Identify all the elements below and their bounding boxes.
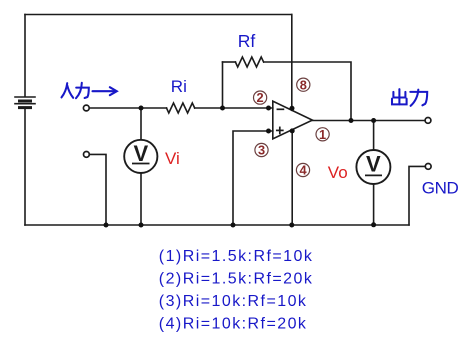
wire node to Rf left riser: [222, 62, 224, 108]
wire Vo branch upper: [373, 121, 375, 151]
svg-text:2: 2: [257, 90, 264, 105]
battery B1: [15, 97, 35, 108]
svg-text:(3)Ri=10k:Rf=10k: (3)Ri=10k:Rf=10k: [159, 293, 308, 310]
op-amp plus sign: [277, 127, 283, 133]
wire input terminal to resistor Ri: [89, 107, 167, 109]
wire pin 8 supply from top rail: [291, 15, 293, 111]
resistor Rf: [235, 57, 263, 67]
wire GND terminal lead: [409, 166, 425, 225]
wire Vi branch upper: [140, 108, 142, 140]
node junction Rf/output: [349, 118, 354, 123]
node junction Vo bottom: [371, 222, 376, 227]
pin 2 circled: [254, 90, 267, 105]
node junction Vo/output: [371, 118, 376, 123]
wire non-inverting input to ground rail: [233, 131, 273, 225]
op-amp U1: [273, 101, 313, 139]
node junction non-inverting input: [266, 129, 271, 134]
voltmeter Vi letter V: [133, 141, 381, 177]
svg-text:GND: GND: [422, 178, 458, 197]
voltmeter Vi underline: [132, 163, 150, 165]
node junction lower terminal bottom: [104, 223, 109, 228]
svg-text:4: 4: [299, 163, 307, 178]
wire Vo branch lower: [373, 184, 375, 225]
wire Rf left lead: [223, 61, 236, 63]
voltmeter Vo: [356, 150, 390, 184]
pin 1 circled: [316, 127, 329, 142]
node junction plus input bottom: [231, 223, 236, 228]
node junction Ri/Rf: [220, 106, 225, 111]
wire pin 4 to ground rail: [291, 130, 293, 225]
wire op-amp output to output terminal: [312, 120, 425, 122]
node output terminal: [425, 118, 431, 124]
wire top rail: [25, 14, 292, 16]
node junction inverting input: [266, 106, 271, 111]
wire lower input terminal lead: [89, 154, 106, 225]
wire left side lower: [24, 109, 26, 226]
svg-text:Rf: Rf: [238, 31, 256, 51]
svg-text:1: 1: [319, 127, 326, 142]
pin 4 circled: [296, 163, 309, 178]
pin 3 circled: [255, 143, 268, 158]
voltmeter Vi: [124, 140, 157, 173]
wire left side upper: [24, 15, 26, 97]
wire Ri to op-amp inverting input: [195, 107, 273, 109]
svg-text:V: V: [133, 141, 148, 166]
node junction Vi bottom: [139, 223, 144, 228]
wire bottom rail: [25, 224, 409, 226]
node GND terminal: [425, 164, 431, 170]
node junction J1 input/Vi: [139, 106, 144, 111]
label 入力→ (input): [62, 83, 117, 98]
label 出力 (output): [392, 89, 427, 106]
wire Vi branch lower: [140, 173, 142, 225]
resistor Ri: [167, 103, 195, 113]
node junction pin8 on triangle: [290, 106, 295, 111]
pin 8 circled: [297, 77, 310, 92]
svg-text:Vi: Vi: [165, 149, 180, 168]
svg-text:8: 8: [300, 77, 307, 92]
svg-text:Vo: Vo: [328, 163, 348, 182]
node input terminal: [83, 105, 89, 111]
op-amp minus sign: [277, 108, 283, 110]
node lower input terminal: [84, 152, 90, 158]
svg-text:V: V: [366, 152, 381, 177]
svg-text:(2)Ri=1.5k:Rf=20k: (2)Ri=1.5k:Rf=20k: [159, 271, 313, 288]
svg-text:(4)Ri=10k:Rf=20k: (4)Ri=10k:Rf=20k: [159, 315, 308, 332]
wire Rf right lead to output node: [264, 62, 351, 121]
voltmeter Vo underline: [365, 174, 382, 176]
svg-text:(1)Ri=1.5k:Rf=10k: (1)Ri=1.5k:Rf=10k: [159, 248, 313, 265]
svg-text:3: 3: [258, 143, 265, 158]
node junction pin4 bottom: [289, 223, 294, 228]
svg-text:Ri: Ri: [171, 77, 187, 96]
node junction pin4 on triangle: [290, 128, 295, 133]
